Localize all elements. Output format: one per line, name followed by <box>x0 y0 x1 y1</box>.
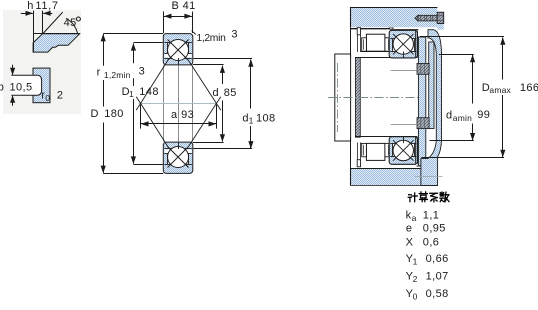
svg-text:108: 108 <box>256 112 276 124</box>
svg-text:e: e <box>406 222 413 234</box>
svg-text:1: 1 <box>249 116 254 126</box>
svg-text:41: 41 <box>183 0 196 12</box>
svg-text:0,95: 0,95 <box>423 222 446 234</box>
housing/shoulder face line <box>350 28 352 58</box>
h dimension line with outside arrows <box>21 13 33 15</box>
clamp screw lower <box>417 118 429 129</box>
svg-text:0: 0 <box>413 291 418 301</box>
shaft shoulder hatched ring <box>355 57 360 137</box>
top surface line of chamfer detail <box>33 33 80 35</box>
svg-text:X: X <box>406 237 414 249</box>
left extension line of h dimension <box>33 11 35 53</box>
svg-text:1: 1 <box>413 257 418 267</box>
svg-text:d: d <box>213 87 220 99</box>
bolt head <box>437 12 444 23</box>
svg-text:b: b <box>0 82 4 94</box>
screw axis lines <box>391 70 420 72</box>
svg-text:93: 93 <box>181 109 194 121</box>
svg-text:0,66: 0,66 <box>426 253 449 265</box>
housing top slab <box>350 7 437 27</box>
bottom housing step outline <box>428 169 430 185</box>
svg-text:r: r <box>97 66 101 78</box>
svg-text:99: 99 <box>477 109 490 121</box>
abutment washer lines (top) <box>357 35 359 52</box>
svg-text:1: 1 <box>129 89 134 99</box>
housing lip tab (top) <box>357 28 360 35</box>
svg-text:3: 3 <box>231 28 238 40</box>
svg-text:45: 45 <box>64 17 77 29</box>
heading 计算系数 (drawn strokes, CJK not in Liberation) <box>408 192 449 202</box>
svg-text:10,5: 10,5 <box>10 82 33 94</box>
inner ring split centerline between blocks <box>178 65 180 141</box>
right extension line of h dimension <box>42 11 44 34</box>
bearing cross-section upper block <box>163 34 193 65</box>
svg-text:2: 2 <box>413 274 418 284</box>
clamping plate <box>418 37 425 166</box>
label 1,2min with leader (top right chamfer) <box>192 31 196 35</box>
svg-text:180: 180 <box>104 108 124 120</box>
bearing cross-section lower block <box>163 142 193 173</box>
cover corner under bolt head <box>437 23 443 30</box>
D dimension line (left) with r 1,2min label <box>103 33 163 35</box>
gray background patch of detail drawings <box>3 10 81 114</box>
spacer ring (bottom) <box>366 143 385 160</box>
svg-text:3: 3 <box>139 66 146 78</box>
svg-text:148: 148 <box>139 86 159 98</box>
housing relief notch <box>389 28 394 30</box>
vertical dash-dot at shaft end <box>337 63 339 132</box>
svg-text:0,58: 0,58 <box>426 288 449 300</box>
svg-text:11,7: 11,7 <box>35 0 58 12</box>
svg-text:h: h <box>27 0 34 12</box>
D1 dimension line <box>133 42 162 44</box>
Damax dimension (far right) <box>420 36 504 38</box>
45 degree angle arc <box>66 18 78 33</box>
shaft centerline (dash-dot) <box>328 97 418 99</box>
spacer ring (top) <box>366 34 385 51</box>
groove slot (white, open left) <box>11 75 41 95</box>
bearing right face lines <box>415 31 417 58</box>
svg-text:0,6: 0,6 <box>423 237 440 249</box>
damin dimension <box>439 54 474 56</box>
contact angle lines to right vertex <box>188 60 216 103</box>
svg-text:amin: amin <box>453 113 472 123</box>
d1 dimension line (far right) <box>193 58 252 60</box>
svg-text:a: a <box>171 109 178 121</box>
shaft end block <box>335 54 351 141</box>
svg-text:B: B <box>172 0 180 12</box>
contact angle lines to left vertex <box>141 60 168 103</box>
a dimension (between contact diamond vertices) <box>140 105 142 129</box>
clamp screw upper <box>417 63 429 74</box>
mirrored bolt axis (bottom) <box>415 176 443 178</box>
upper detail: outer-ring chamfer cross-section (blue) <box>33 34 80 52</box>
attachment bolt (top right) <box>418 15 437 21</box>
svg-text:1,1: 1,1 <box>423 210 440 222</box>
B dimension (top) <box>163 12 165 34</box>
housing bottom slab <box>350 168 428 185</box>
housing lip tab (bottom) <box>357 160 360 167</box>
cover clamping band <box>429 42 434 129</box>
d dimension line (right of section) <box>193 64 224 66</box>
lower detail: snap ring groove cross-section (blue block) <box>33 68 50 103</box>
shaft seat surface lines <box>355 57 417 59</box>
abutment washer lines (bottom) <box>357 143 359 160</box>
b dimension arrows <box>12 65 14 75</box>
svg-text:d: d <box>446 110 453 122</box>
light horizontal centerline through contact diamond <box>139 103 216 105</box>
svg-text:2: 2 <box>57 90 64 102</box>
mounted bearing upper block <box>389 30 417 58</box>
svg-text:1,2min: 1,2min <box>196 33 226 44</box>
svg-text:0: 0 <box>45 93 50 103</box>
mounted bearing lower block <box>389 137 417 165</box>
slab bottom edge (housing bore) <box>351 28 389 30</box>
svg-text:1,2min: 1,2min <box>104 70 131 80</box>
svg-text:1,07: 1,07 <box>426 271 449 283</box>
svg-text:D: D <box>91 108 99 120</box>
spacer bottom lines <box>361 51 391 53</box>
svg-text:amax: amax <box>489 85 511 95</box>
cover outer wall with curved elbows <box>421 30 442 186</box>
svg-text:166: 166 <box>520 82 538 94</box>
svg-text:85: 85 <box>224 87 237 99</box>
45 degree chamfer construction line <box>43 12 63 33</box>
connecting side-face lines between blocks <box>163 65 165 141</box>
